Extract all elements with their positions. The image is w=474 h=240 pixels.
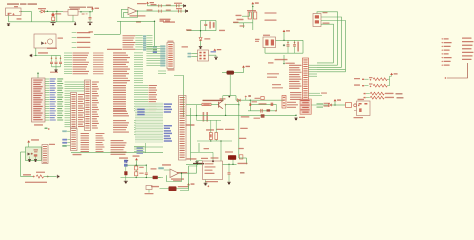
wire speaker out: [177, 188, 189, 190]
capacitor C6 value: [166, 10, 171, 11]
crystal Q1 pad1: [265, 40, 268, 46]
sensor gnd stem1: [29, 157, 31, 160]
cluster Q12 text: [145, 193, 154, 194]
header SV1 pad1: [315, 15, 319, 18]
resistor R9 label2: [139, 173, 144, 174]
pin stub col P cluster3: [134, 146, 145, 148]
wire D6 down: [125, 175, 127, 180]
reset corner label: [237, 19, 244, 20]
sensor module body: [26, 147, 42, 161]
wire bottom rail: [9, 21, 74, 23]
net label blue col1: [137, 109, 145, 111]
wire E1: [191, 53, 197, 55]
junction comp3: [136, 177, 137, 178]
transistor rail comp: [261, 114, 265, 117]
ground bottom jp: [124, 161, 128, 163]
wire comp rail1: [126, 164, 147, 166]
MCU decoupling: [45, 128, 48, 130]
junction chg2: [225, 115, 226, 116]
junction boost1: [250, 100, 251, 101]
net label SDA: [236, 15, 242, 16]
wire JP1 gnd down: [8, 16, 10, 22]
comparator vcc label: [133, 155, 140, 156]
gate row4 dash: [397, 97, 404, 98]
power connector JP1 body: [6, 8, 22, 16]
part no text 1: [265, 12, 277, 14]
capacitor C12: [51, 56, 53, 62]
wire U2A -in: [124, 11, 129, 13]
left bus label2: [240, 128, 248, 129]
IC U10 pin strip: [282, 96, 286, 109]
header SV2 body: [167, 43, 174, 69]
MCU U6 label: [34, 124, 43, 125]
wire boost corner down: [246, 158, 248, 164]
capacitor C5: [159, 4, 161, 7]
ground symbol D2: [199, 47, 202, 49]
MCU U6 pin texts: [33, 80, 43, 81]
label comp top: [162, 164, 171, 165]
ferrite FB1 wire: [222, 72, 244, 74]
wire U2A feedback left: [120, 9, 122, 17]
junction XTAL: [283, 40, 284, 41]
gate U7D zigzag2: [377, 96, 384, 99]
MCU U6 right stubs: [45, 78, 49, 80]
left bus comp5: [239, 155, 243, 159]
crystal Q1 body: [263, 37, 276, 48]
gate U7A zigzag1: [373, 78, 380, 81]
pin name col P cluster2: [113, 120, 126, 121]
resistor R3: [254, 12, 257, 19]
junction C10 cross: [287, 42, 289, 44]
junction comp1: [136, 165, 137, 166]
gate U7C zigzag2: [377, 92, 384, 95]
left bus label3: [239, 138, 247, 139]
battery BT1 mark: [213, 22, 215, 28]
dense label rows mid: [64, 52, 72, 54]
wire U9 down: [205, 180, 207, 183]
lower header col3 texts: [96, 133, 105, 134]
LED1 lead: [52, 11, 54, 13]
wire boost feed: [236, 99, 284, 101]
oscillator X1 arrow mark: [41, 42, 44, 45]
header SV2 label: [168, 41, 174, 42]
diode D2: [199, 38, 202, 41]
label bottom jp: [119, 157, 128, 158]
wire bus4: [321, 24, 334, 63]
wire U2A -in jog: [123, 12, 125, 17]
wire R9 bottom: [135, 176, 137, 178]
LED1: [52, 13, 55, 16]
capacitor C5 value: [166, 5, 171, 6]
wire bundle drop: [145, 143, 147, 153]
IC U3 pad 3: [199, 55, 201, 57]
wire Q2 out down: [225, 105, 227, 116]
wire 5V up: [92, 9, 94, 12]
IC1 pin out stub: [78, 11, 80, 13]
speaker LS1 label: [178, 186, 189, 187]
gate row1 label: [354, 78, 360, 79]
vcc left label: [149, 167, 151, 169]
label comp in: [151, 168, 157, 169]
wire down bus vertical: [183, 75, 185, 117]
junction node riser: [56, 11, 57, 12]
reset aux label: [219, 30, 225, 31]
photocell junction1: [33, 176, 35, 178]
wire bus1: [317, 12, 338, 65]
diode D1 label: [38, 8, 46, 9]
capacitor C15: [145, 165, 147, 172]
regulator U9 text3: [205, 170, 213, 171]
wire U9 out: [223, 163, 237, 165]
buzzer pad3: [359, 108, 362, 112]
photocell end mark: [57, 175, 59, 178]
JP1 pin 2: [12, 13, 14, 15]
regulator IC1 7805 label: [69, 7, 86, 8]
wire bus1 into U4: [317, 64, 338, 66]
junction rail1: [295, 115, 296, 116]
blue comp B1b: [124, 164, 128, 167]
sensor module mark2: [31, 153, 33, 155]
teal label JB3: [62, 145, 67, 147]
boost rowB label: [259, 103, 267, 104]
label U8 out: [177, 172, 188, 173]
junction U2A out: [137, 10, 138, 11]
wire boost down bottom: [239, 157, 247, 159]
wire U9 out junction2: [207, 185, 209, 187]
collector junction blob: [228, 96, 230, 98]
header JP2 pin texts: [71, 94, 75, 95]
header SV3 body: [179, 96, 187, 161]
power connector JP1 designator: [14, 6, 18, 7]
sensor ground1: [28, 160, 31, 162]
boost label b: [252, 101, 258, 102]
LED3 label: [211, 157, 219, 158]
capacitor C16 down: [228, 174, 230, 182]
long net label row: [107, 49, 122, 50]
IC U4 left label 4: [272, 87, 283, 88]
buzzer label: [358, 99, 365, 100]
LED1 label: [55, 13, 61, 14]
junction node 5V: [80, 11, 81, 12]
IC U4 lower stub1: [309, 92, 321, 94]
right connector wire: [447, 63, 468, 78]
LED2 label: [225, 151, 233, 152]
wire label on net: [285, 63, 295, 64]
wire photocell out: [44, 176, 57, 178]
capacitor C6 label: [147, 9, 153, 10]
junction C11 cross: [294, 42, 296, 44]
charger bottom label1: [187, 158, 197, 159]
wire boost rail ext: [239, 114, 296, 116]
lower header JP4 texts: [71, 130, 76, 131]
wire reset top: [201, 20, 217, 22]
ferrite FB1: [227, 71, 235, 75]
diode D3 vertical: [209, 133, 212, 140]
wire mesh chg4: [197, 140, 232, 142]
wire sensor left: [21, 151, 26, 153]
wire U8 up right: [197, 161, 203, 174]
wire boost rail vert: [295, 114, 297, 115]
IC U4 pin text col lower: [290, 92, 302, 93]
oscillator X1 circle: [47, 39, 52, 44]
JP1 pin 1: [7, 13, 9, 15]
wire SDA: [242, 15, 250, 17]
wire U2A output: [137, 10, 146, 12]
blue comp B1a: [124, 160, 128, 163]
gate U7A zigzag2: [380, 78, 387, 81]
wire top loop horizontal: [117, 20, 155, 22]
resistor R2 label: [247, 10, 256, 11]
wire speaker vcc: [188, 185, 190, 189]
diode D1 anode stub: [39, 10, 41, 12]
wire charger in: [186, 104, 202, 106]
ground D6: [124, 181, 128, 183]
IC U4 pin text col: [289, 65, 302, 66]
ground chg2: [212, 160, 214, 162]
wire R9 mid: [135, 170, 137, 172]
wire caps bottom: [52, 66, 61, 68]
blue label JB1: [62, 139, 67, 141]
capacitor C8 label: [176, 8, 182, 9]
IC1 out plus marks: [82, 13, 85, 14]
wire collector down: [235, 96, 237, 101]
capacitor C9 vertical label: [209, 22, 211, 29]
photocell caption: [25, 182, 47, 183]
ground symbol rail1 end: [179, 4, 186, 7]
oscillator X1 label: [47, 48, 57, 49]
teal label column: [143, 35, 146, 37]
supply symbol boost: [334, 99, 341, 101]
dark cross XTAL: [283, 44, 285, 46]
LED2 charge: [230, 155, 237, 159]
supply speaker: [187, 183, 194, 185]
sparse label rows upper: [72, 32, 77, 34]
capacitor C8: [179, 10, 181, 13]
connector JP5 label: [49, 144, 55, 145]
junction X1: [35, 55, 36, 56]
wire rail1: [148, 5, 180, 7]
capacitor C11: [294, 40, 296, 44]
boost comp box: [261, 97, 264, 100]
gate row1 comp mark: [369, 77, 373, 78]
resistor R9 label1: [139, 167, 144, 168]
charger bottom label2: [201, 158, 208, 159]
wire LED2 down: [232, 160, 234, 165]
wire comp rail2: [121, 177, 161, 179]
buzzer pin stub1: [354, 103, 357, 105]
part no text 2: [265, 19, 277, 21]
wire FB1 vcc riser: [243, 67, 245, 72]
resistor R2: [248, 12, 251, 19]
label dash bottom: [240, 172, 245, 173]
IC U3 pad 4: [203, 55, 205, 57]
op-amp U2A: [128, 7, 137, 14]
wire reg top corner: [198, 143, 200, 152]
wire VIN down: [31, 12, 33, 22]
ground boost: [294, 118, 297, 120]
sensor module comp: [34, 154, 38, 156]
photocell R8 label: [36, 172, 45, 173]
sensor module text2: [34, 151, 38, 152]
capacitor C14 mark: [249, 103, 251, 106]
cap rail label: [38, 52, 48, 53]
caps label below: [50, 72, 58, 73]
transistor Q2: [219, 101, 223, 109]
IC U3 body: [198, 50, 209, 61]
resistor R9a: [135, 166, 138, 170]
op-amp U8 label: [171, 178, 184, 179]
junction chg4: [220, 140, 221, 141]
MCU U6 net labels blue: [50, 78, 56, 79]
gate U7D zigzag1: [370, 96, 377, 99]
wire bus3 into U4: [317, 69, 346, 71]
header JP3 body: [85, 80, 91, 131]
wire gate row1: [365, 78, 369, 80]
wire top loop left vert: [119, 21, 121, 34]
regulator U9 body: [203, 161, 223, 180]
wire D5 out: [332, 104, 346, 106]
wire X1 rail: [34, 55, 52, 57]
supply symbol XTAL: [283, 30, 290, 32]
ground U9: [204, 183, 208, 185]
capacitor C14b: [60, 56, 62, 62]
regulator U9 text1: [205, 163, 214, 164]
resistor R4: [202, 103, 211, 106]
wire top loop left horiz: [94, 33, 120, 35]
wire riser x56.8: [56, 11, 58, 21]
small labels cluster3 right: [137, 147, 144, 148]
regulator IC1 body: [68, 10, 78, 16]
junction U4 reset: [283, 63, 284, 64]
R4 value strip2: [206, 112, 208, 122]
wire reset left vert: [200, 21, 202, 38]
wire U3 out: [209, 54, 217, 56]
IC U4 lower stub label: [321, 93, 327, 94]
left bus mark4: [238, 148, 244, 149]
wire XTAL vcc: [283, 32, 285, 40]
capacitor C13: [55, 56, 57, 62]
LED3 dark rect: [228, 155, 236, 160]
supply symbol after FB1: [242, 65, 250, 67]
op-amp U2A label: [130, 15, 146, 16]
wire boost rowC: [248, 110, 277, 112]
wire top loop right vert: [154, 21, 156, 46]
junction node C2: [89, 11, 90, 12]
wire reset corner: [234, 23, 244, 28]
gnd net label: [17, 18, 22, 19]
gate row4 label: [385, 97, 394, 98]
wire pullups below: [252, 23, 254, 30]
MCU U6 net labels green: [57, 78, 63, 79]
wire charger mid rail: [186, 114, 239, 116]
ground symbol rail end: [73, 22, 76, 25]
IC U3 pad 5: [199, 58, 201, 60]
wire Q1 bottom left: [264, 48, 266, 54]
ground X1 rail: [30, 54, 32, 57]
wires into SV2: [146, 45, 160, 47]
wire chg lower corner: [191, 151, 214, 153]
wire Q1 out: [276, 39, 304, 41]
wire gate row4 in: [366, 97, 370, 99]
supply symbol VCC rail1: [146, 2, 154, 4]
cap value vertical text: [297, 42, 299, 52]
wire gate row2 out: [387, 85, 389, 87]
capacitor C7: [177, 4, 179, 7]
capacitor C16 wire: [228, 164, 230, 172]
IC U4 body strip: [303, 58, 309, 101]
IC U4 right stubs: [309, 64, 318, 66]
wire D3 down: [210, 140, 212, 142]
lower header JP4 body: [71, 129, 78, 151]
wire U2A feedback right: [137, 11, 139, 18]
pin stub column P lower: [134, 85, 148, 87]
cluster Q12 stem: [148, 190, 150, 193]
teal label column 2: [160, 45, 165, 47]
net label blue col2 lower: [164, 125, 172, 127]
pin name col P mid cluster: [113, 108, 126, 109]
boost rowC comp dark: [267, 109, 271, 111]
wire U2A feedback bottom: [121, 17, 137, 19]
IC1 pin gnd: [72, 15, 74, 22]
wire boost rowB: [250, 104, 276, 106]
gate row3 input mark: [364, 93, 366, 94]
speaker label: [151, 186, 159, 187]
junction Q2 cross: [225, 104, 227, 106]
ferrite FB1 lead: [229, 75, 231, 96]
gate row3 dash: [396, 93, 403, 94]
ground symbol under R1: [51, 21, 56, 26]
wire gates vcc link: [390, 75, 392, 77]
wire D3 up: [210, 120, 212, 132]
gate row1 mark: [362, 79, 364, 80]
wire E2: [191, 56, 197, 58]
boost mark dark: [248, 95, 251, 97]
wire B1 down: [125, 167, 127, 171]
wire R5 down: [215, 140, 217, 142]
wire down arrow top: [154, 21, 155, 22]
wire battery to reg: [220, 141, 222, 161]
wire XTAL right vert: [302, 40, 304, 53]
teal label JB0: [62, 130, 67, 132]
sensor module mark1: [28, 153, 31, 156]
IC U10 crenellation bars: [300, 100, 309, 101]
wire Q2 collector: [222, 96, 224, 101]
capacitor C2 lead2: [89, 19, 91, 22]
top loop label: [89, 31, 94, 32]
junction U8: [181, 173, 182, 174]
junction reset: [200, 30, 201, 31]
net label RESET: [268, 62, 274, 63]
wire speaker: [160, 188, 169, 190]
junction node VIN2: [47, 11, 48, 12]
header SV1 body: [313, 14, 321, 27]
IC U4 left label 1: [267, 73, 279, 74]
comp M5 circle: [354, 104, 357, 107]
charger title text: [203, 100, 224, 101]
header JP3 pin texts: [85, 82, 89, 83]
IC U3 pad 6: [203, 58, 205, 60]
op-amp U8 comparator: [170, 169, 179, 178]
connector JP5 pin texts: [43, 146, 47, 147]
sensor ground2: [34, 160, 37, 162]
IC U4 left label 3: [272, 84, 281, 85]
caps gnd label: [160, 19, 171, 20]
wire caps gnd stem: [55, 67, 57, 70]
wire into reg box: [186, 163, 203, 165]
wire boost out2: [323, 104, 329, 106]
wire XTAL bottom: [265, 52, 303, 54]
wire sensor bottom: [21, 176, 34, 178]
